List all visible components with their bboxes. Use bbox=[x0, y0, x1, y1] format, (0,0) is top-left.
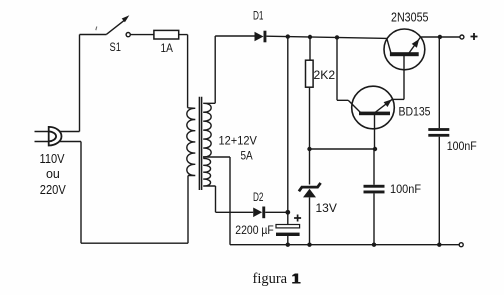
wire BD135 emitter to 2N3055 base bbox=[403, 56, 405, 100]
secondary center tap wire bbox=[203, 157, 230, 245]
wire switch to fuse bbox=[131, 34, 154, 36]
svg-text:D1: D1 bbox=[253, 9, 264, 23]
capacitor C1 2200uF electrolytic bbox=[276, 215, 300, 245]
capacitor C3 100nF output bbox=[428, 37, 449, 245]
plus polarity mark C1 bbox=[294, 215, 301, 222]
wire BD135 base down to base node bbox=[374, 115, 376, 149]
AC plug P1 bbox=[35, 127, 62, 146]
svg-text:2200 µF: 2200 µF bbox=[235, 223, 274, 237]
transformer T1 core bbox=[199, 97, 201, 190]
transistor Q1 2N3055 bbox=[384, 29, 425, 70]
label 12+12V 5A bbox=[219, 133, 257, 162]
svg-text:1A: 1A bbox=[161, 41, 173, 55]
diode D2 bbox=[253, 207, 265, 219]
node dot rail-D2branch bbox=[286, 34, 290, 38]
transformer T1 secondary winding lower bbox=[203, 158, 215, 186]
node dot zener-base wire left bbox=[307, 147, 311, 151]
svg-text:S1: S1 bbox=[110, 40, 122, 54]
node dot base wire right bbox=[373, 147, 377, 151]
wire 2N3055 emitter to + output bbox=[420, 36, 460, 38]
terminal - output bbox=[459, 243, 463, 247]
plus output mark bbox=[471, 33, 478, 40]
svg-text:13V: 13V bbox=[316, 201, 337, 215]
wire plug bottom around to primary bottom bbox=[59, 142, 189, 244]
ground rail bottom bbox=[230, 244, 459, 246]
svg-text:ou: ou bbox=[46, 167, 60, 181]
node dot rail-C1 bbox=[286, 243, 290, 247]
svg-text:220V: 220V bbox=[40, 183, 67, 197]
wire rail to BD135 collector bbox=[337, 37, 348, 100]
scan speck bbox=[96, 27, 97, 31]
wire base node to BD135 base bbox=[310, 148, 376, 150]
svg-text:100nF: 100nF bbox=[447, 139, 477, 153]
svg-text:2K2: 2K2 bbox=[314, 68, 336, 82]
transistor Q2 BD135 bbox=[348, 86, 404, 129]
node dot rail-C3 bbox=[437, 243, 441, 247]
resistor R1 2K2 bbox=[306, 37, 314, 149]
wire D2 to filter cap node bbox=[265, 211, 288, 213]
wire D1 to 2N3055 collector (positive rail) bbox=[266, 36, 386, 38]
node dot output top bbox=[438, 35, 442, 39]
wire secondary top to D1 bbox=[215, 36, 254, 103]
svg-text:100nF: 100nF bbox=[390, 182, 421, 196]
node dot rail-C2 bbox=[372, 243, 376, 247]
zener diode Z1 13V bbox=[299, 149, 321, 245]
svg-text:12+12V: 12+12V bbox=[219, 133, 257, 147]
svg-text:5A: 5A bbox=[241, 148, 253, 162]
node dot rail-BD135 bbox=[335, 35, 339, 39]
diode D1 bbox=[255, 31, 267, 43]
svg-text:figura: figura bbox=[253, 271, 288, 287]
capacitor C2 100nF middle bbox=[364, 149, 385, 245]
svg-text:2N3055: 2N3055 bbox=[391, 10, 429, 24]
svg-text:1: 1 bbox=[291, 270, 299, 287]
label 110V ou 220V bbox=[40, 152, 67, 197]
wire rectifier vertical D1 to D2 bbox=[287, 37, 289, 213]
caption figura 1 bbox=[253, 270, 301, 287]
terminal + output bbox=[460, 35, 464, 39]
node dot D2-cap junction bbox=[285, 210, 290, 215]
wire secondary bottom to D2 bbox=[216, 186, 254, 212]
wire plug top to switch bbox=[60, 35, 107, 132]
fuse F1 1A bbox=[154, 30, 179, 39]
node dot rail-2K2 bbox=[308, 35, 312, 39]
transformer T1 secondary winding upper bbox=[203, 103, 215, 157]
svg-text:D2: D2 bbox=[253, 190, 264, 204]
wire fuse to transformer primary bbox=[179, 35, 188, 108]
node dot rail-zener bbox=[307, 243, 311, 247]
switch S1 bbox=[107, 15, 131, 36]
svg-text:110V: 110V bbox=[40, 152, 66, 166]
svg-text:BD135: BD135 bbox=[399, 104, 431, 118]
transformer T1 primary winding bbox=[187, 108, 195, 176]
